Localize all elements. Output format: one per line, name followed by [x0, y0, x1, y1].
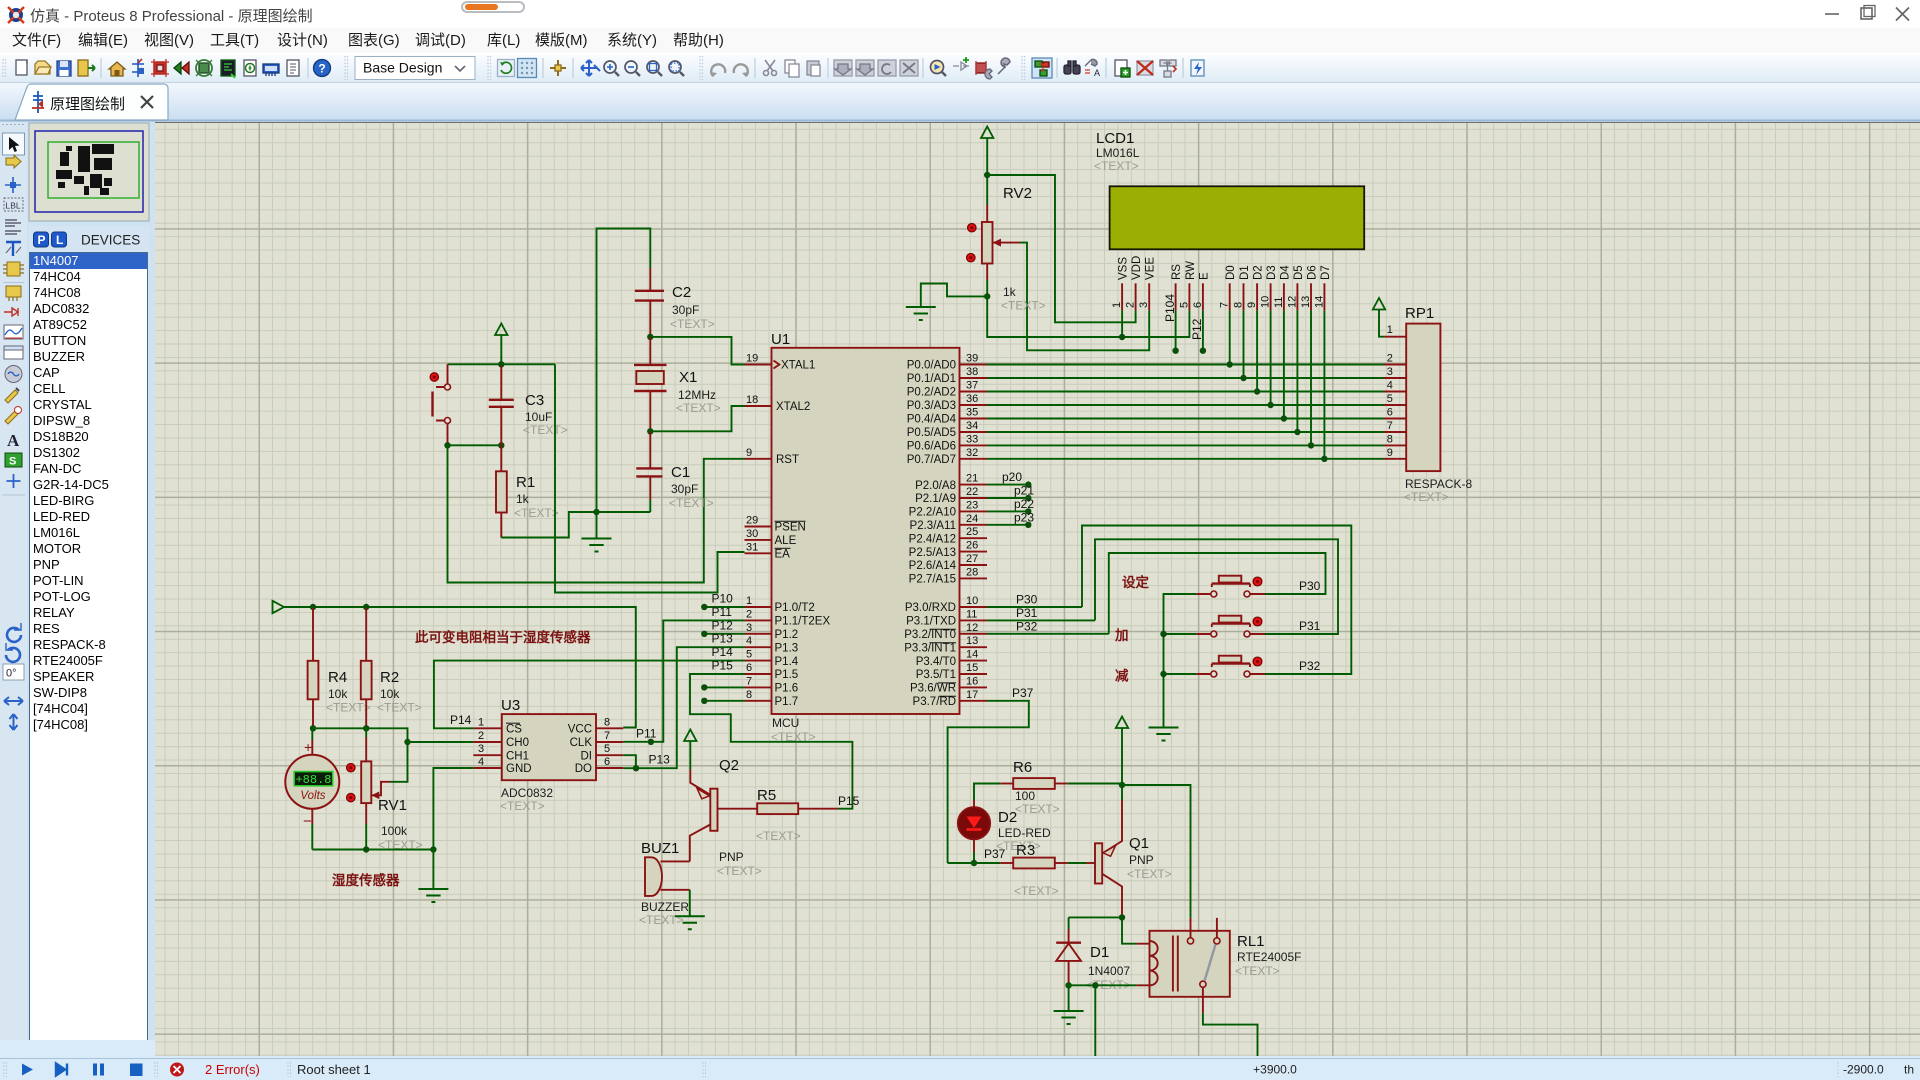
- 2D symbol S: [5, 453, 22, 467]
- svg-text:29: 29: [746, 515, 758, 527]
- svg-text:0°: 0°: [6, 668, 17, 680]
- wire XTAL2: [650, 406, 744, 431]
- node: C3/R1 junction: [498, 442, 504, 448]
- svg-text:10k: 10k: [380, 687, 400, 701]
- svg-text:XTAL1: XTAL1: [781, 360, 815, 372]
- svg-text:RST: RST: [776, 454, 799, 466]
- wire relay NO contact out: [1203, 1013, 1258, 1056]
- svg-text:P30: P30: [1299, 579, 1321, 593]
- svg-text:DI: DI: [581, 750, 593, 762]
- svg-text:P13: P13: [649, 753, 671, 767]
- svg-text:RL1: RL1: [1237, 933, 1265, 950]
- node: +5V junction: [1119, 782, 1125, 788]
- svg-text:p22: p22: [1014, 497, 1034, 511]
- capacitor C3: [489, 366, 568, 445]
- svg-text:12: 12: [1286, 296, 1298, 308]
- svg-text:<TEXT>: <TEXT>: [1404, 490, 1449, 504]
- resistor R5: [756, 787, 838, 843]
- wire divider to CH0: [313, 728, 408, 782]
- svg-text:P1.0/T2: P1.0/T2: [775, 602, 815, 614]
- graph mode: [4, 325, 23, 339]
- svg-text:C1: C1: [671, 464, 690, 481]
- svg-text:10: 10: [966, 595, 978, 607]
- node: collector junction: [1119, 914, 1125, 920]
- wire collector to D1/coil: [1069, 917, 1137, 943]
- svg-text:P1.1/T2EX: P1.1/T2EX: [775, 616, 831, 628]
- svg-text:4: 4: [746, 635, 752, 647]
- wire P3.0 P3.1 P3.2 to keys: [987, 606, 1082, 608]
- svg-text:<TEXT>: <TEXT>: [1235, 964, 1280, 978]
- svg-text:R3: R3: [1016, 842, 1035, 859]
- svg-text:1N4007: 1N4007: [1088, 964, 1130, 978]
- svg-text:P0.1/AD1: P0.1/AD1: [907, 373, 956, 385]
- svg-text:P2.1/A9: P2.1/A9: [915, 493, 956, 505]
- push button key at y=594: [1196, 576, 1265, 597]
- svg-text:P31: P31: [1299, 619, 1321, 633]
- bus mode: [6, 242, 21, 256]
- svg-text:+3900.0: +3900.0: [1253, 1063, 1297, 1077]
- svg-text:设定: 设定: [1122, 574, 1150, 590]
- svg-text:2 Error(s): 2 Error(s): [205, 1062, 260, 1077]
- resistor R4: [308, 608, 371, 728]
- svg-text:ADC0832: ADC0832: [501, 786, 553, 800]
- svg-text:9: 9: [1387, 447, 1393, 459]
- transistor Q1 PNP: [1086, 785, 1171, 917]
- svg-text:P1.5: P1.5: [775, 669, 799, 681]
- svg-text:D6: D6: [1307, 265, 1319, 280]
- svg-text:<TEXT>: <TEXT>: [1001, 299, 1046, 313]
- diode D1 1N4007: [1056, 917, 1130, 992]
- node: R4 bottom: [310, 725, 316, 731]
- wire P3.0 to key3: [1082, 526, 1351, 675]
- svg-text:X1: X1: [679, 369, 697, 386]
- rotate CW: [7, 628, 21, 642]
- wire reset top rail: [448, 363, 556, 365]
- svg-text:3: 3: [1138, 302, 1150, 308]
- svg-text:-2900.0: -2900.0: [1843, 1063, 1884, 1077]
- IC U3 ADC0832 body: [502, 714, 596, 780]
- svg-text:6: 6: [1192, 302, 1204, 308]
- svg-text:RS: RS: [1171, 264, 1183, 280]
- wire E stub: [1202, 310, 1204, 350]
- svg-text:CH0: CH0: [506, 737, 529, 749]
- svg-text:<TEXT>: <TEXT>: [1094, 159, 1139, 173]
- wire RV2 wiper to VEE: [1020, 243, 1149, 351]
- svg-text:D0: D0: [1225, 265, 1237, 280]
- svg-text:<TEXT>: <TEXT>: [500, 799, 545, 813]
- relay RL1: [1137, 918, 1302, 1013]
- svg-text:3: 3: [478, 743, 484, 755]
- ground (ADC): [418, 889, 448, 902]
- svg-text:10uF: 10uF: [525, 410, 552, 424]
- wire +5V to relay common: [1122, 785, 1191, 918]
- svg-text:<TEXT>: <TEXT>: [639, 913, 684, 927]
- svg-text:P1.2: P1.2: [775, 629, 799, 641]
- svg-text:p21: p21: [1014, 484, 1034, 498]
- resistor R6: [1000, 759, 1122, 816]
- svg-text:6: 6: [746, 662, 752, 674]
- svg-text:P3.4/T0: P3.4/T0: [916, 656, 956, 668]
- svg-text:<TEXT>: <TEXT>: [1014, 884, 1059, 898]
- svg-text:30pF: 30pF: [671, 482, 698, 496]
- svg-text:P2.6/A14: P2.6/A14: [909, 560, 957, 572]
- wire P1.7 stub: [704, 700, 744, 702]
- power terminal (reset net): [495, 324, 507, 336]
- svg-text:LED-RED: LED-RED: [998, 826, 1051, 840]
- wire P1.4 to ADC CS: [434, 661, 745, 729]
- wire VDD to LCD pin2: [987, 175, 1135, 322]
- svg-text:EA: EA: [775, 549, 791, 561]
- wire P2.0-P2.3 stubs: [987, 484, 1028, 486]
- svg-text:BUZ1: BUZ1: [641, 840, 679, 857]
- resistor R1: [496, 445, 559, 537]
- svg-text:7: 7: [1387, 420, 1393, 432]
- svg-text:<TEXT>: <TEXT>: [377, 701, 422, 715]
- svg-text:18: 18: [746, 394, 758, 406]
- generator mode: [5, 366, 22, 383]
- svg-text:GND: GND: [506, 763, 532, 775]
- svg-text:此可变电阻相当于湿度传感器: 此可变电阻相当于湿度传感器: [415, 629, 591, 645]
- push button key at y=634: [1196, 616, 1265, 637]
- svg-text:P0.7/AD7: P0.7/AD7: [907, 454, 956, 466]
- svg-text:U1: U1: [771, 331, 790, 348]
- svg-text:5: 5: [746, 649, 752, 661]
- svg-text:湿度传感器: 湿度传感器: [332, 872, 400, 888]
- svg-text:9: 9: [746, 447, 752, 459]
- svg-text:38: 38: [966, 366, 978, 378]
- node: ground junction: [593, 509, 599, 515]
- svg-text:5: 5: [1178, 302, 1190, 308]
- mirror vertical: [10, 714, 18, 730]
- svg-text:P3.3/INT1: P3.3/INT1: [904, 642, 956, 654]
- wire R1 bottom to ground net: [501, 512, 650, 538]
- svg-text:12MHz: 12MHz: [678, 388, 716, 402]
- wire P1.5 to R5: [690, 674, 852, 809]
- svg-text:P32: P32: [1299, 659, 1321, 673]
- svg-text:E: E: [1198, 272, 1210, 280]
- capacitor C2: [635, 268, 715, 337]
- svg-text:30pF: 30pF: [672, 303, 699, 317]
- wire P0 bus lines to RP1: [987, 364, 1384, 366]
- svg-text:R5: R5: [757, 787, 776, 804]
- svg-text:<TEXT>: <TEXT>: [669, 496, 714, 510]
- svg-text:2: 2: [746, 608, 752, 620]
- svg-text:<TEXT>: <TEXT>: [717, 864, 762, 878]
- svg-text:P30: P30: [1016, 593, 1038, 607]
- svg-text:1: 1: [746, 595, 752, 607]
- svg-text:9: 9: [1246, 302, 1258, 308]
- wire XTAL1: [650, 337, 744, 365]
- svg-text:37: 37: [966, 380, 978, 392]
- svg-text:1: 1: [1387, 324, 1393, 336]
- svg-text:P2.2/A10: P2.2/A10: [909, 507, 956, 519]
- svg-text:R6: R6: [1013, 759, 1032, 776]
- LED D2: [958, 800, 1051, 863]
- wire RV2 bottom / gnd net: [986, 280, 988, 296]
- svg-text:1k: 1k: [516, 492, 530, 506]
- svg-text:C3: C3: [525, 392, 544, 409]
- svg-text:PNP: PNP: [1129, 853, 1154, 867]
- op: MCU U1 AT89C52 body: [772, 348, 960, 714]
- svg-text:35: 35: [966, 407, 978, 419]
- svg-text:P1.4: P1.4: [775, 656, 799, 668]
- svg-text:−: −: [303, 813, 312, 830]
- svg-text:LBL: LBL: [6, 201, 21, 211]
- svg-text:P3.2/INT0: P3.2/INT0: [904, 629, 956, 641]
- svg-text:2: 2: [478, 730, 484, 742]
- svg-text:P0.3/AD3: P0.3/AD3: [907, 400, 956, 412]
- svg-text:<TEXT>: <TEXT>: [514, 506, 559, 520]
- svg-text:P31: P31: [1016, 606, 1038, 620]
- crystal X1: [634, 337, 721, 431]
- svg-text:P3.6/WR: P3.6/WR: [910, 683, 956, 695]
- svg-text:P1.3: P1.3: [775, 642, 799, 654]
- node: button bottom: [444, 442, 450, 448]
- svg-text:P37: P37: [1012, 686, 1034, 700]
- component mode icon: [6, 155, 21, 168]
- svg-text:P10: P10: [712, 592, 734, 606]
- svg-text:R2: R2: [380, 669, 399, 686]
- svg-text:RV1: RV1: [378, 797, 407, 814]
- tape recorder mode: [4, 346, 23, 359]
- svg-text:17: 17: [966, 689, 978, 701]
- svg-text:P13: P13: [712, 632, 734, 646]
- svg-text:P1.6: P1.6: [775, 683, 799, 695]
- svg-text:6: 6: [604, 756, 610, 768]
- svg-text:减: 减: [1115, 668, 1129, 684]
- svg-text:P37: P37: [984, 847, 1006, 861]
- svg-text:1: 1: [1111, 302, 1123, 308]
- pot RV2: [967, 185, 1032, 280]
- wire analog gnd rail: [312, 849, 433, 851]
- svg-text:5: 5: [604, 743, 610, 755]
- ground (relay): [1068, 985, 1070, 1011]
- svg-text:26: 26: [966, 540, 978, 552]
- svg-text:P: P: [38, 233, 46, 247]
- power terminal (RP1): [1373, 298, 1385, 310]
- svg-text:RESPACK-8: RESPACK-8: [1405, 477, 1472, 491]
- wire C2 top rail: [597, 229, 651, 513]
- svg-text:D4: D4: [1279, 265, 1291, 280]
- wire P3.2 to key1: [1109, 553, 1326, 634]
- svg-text:<TEXT>: <TEXT>: [523, 423, 568, 437]
- svg-text:PSEN: PSEN: [775, 522, 806, 534]
- node: tap junction: [1092, 982, 1098, 988]
- svg-text:A: A: [7, 431, 20, 450]
- svg-text:<TEXT>: <TEXT>: [1127, 867, 1172, 881]
- wire P1.0 stub / +5V rail: [273, 601, 285, 613]
- svg-text:4: 4: [478, 756, 484, 768]
- svg-text:RTE24005F: RTE24005F: [1237, 950, 1301, 964]
- wire P1.3 to ADC DO/DI: [623, 647, 744, 768]
- svg-text:XTAL2: XTAL2: [776, 401, 810, 413]
- U3 right pins: [596, 727, 623, 729]
- ground (clock section): [596, 512, 598, 539]
- svg-text:7: 7: [604, 730, 610, 742]
- svg-text:P2.4/A12: P2.4/A12: [909, 533, 956, 545]
- wire P1.2 stub: [704, 633, 744, 635]
- svg-text:DO: DO: [575, 763, 592, 775]
- svg-text:5: 5: [1387, 393, 1393, 405]
- wire gnd to VSS and RW: [987, 296, 1189, 337]
- svg-text:27: 27: [966, 553, 978, 565]
- svg-text:CLK: CLK: [570, 737, 593, 749]
- svg-text:P14: P14: [450, 713, 472, 727]
- wire tap to canvas edge: [1094, 985, 1096, 1056]
- svg-text:36: 36: [966, 393, 978, 405]
- svg-text:ALE: ALE: [775, 535, 797, 547]
- junction dot mode: [5, 177, 21, 193]
- wire P1.6 stub: [704, 686, 744, 688]
- svg-text:P2.7/A15: P2.7/A15: [909, 574, 956, 586]
- svg-text:14: 14: [1313, 296, 1325, 308]
- svg-text:12: 12: [966, 622, 978, 634]
- power terminal (Q2 emitter): [684, 730, 696, 742]
- wire P3.1 to key2: [1095, 539, 1338, 634]
- ground (buzzer): [675, 916, 705, 929]
- svg-text:CH1: CH1: [506, 750, 529, 762]
- svg-text:<TEXT>: <TEXT>: [756, 829, 801, 843]
- svg-text:<TEXT>: <TEXT>: [676, 401, 721, 415]
- svg-text:100k: 100k: [381, 824, 408, 838]
- push button (reset): [430, 364, 450, 445]
- svg-text:1k: 1k: [1003, 285, 1017, 299]
- svg-text:+: +: [304, 739, 312, 755]
- wire reset net to RST: [448, 445, 745, 582]
- svg-text:P12: P12: [1190, 318, 1204, 340]
- svg-text:8: 8: [1387, 433, 1393, 445]
- power terminal (VDD): [981, 127, 993, 139]
- svg-text:P3.5/T1: P3.5/T1: [916, 669, 956, 681]
- svg-text:D3: D3: [1266, 265, 1278, 280]
- svg-text:14: 14: [966, 649, 978, 661]
- svg-text:<TEXT>: <TEXT>: [670, 317, 715, 331]
- svg-text:VCC: VCC: [568, 724, 592, 736]
- wire buzzer to ground: [689, 890, 691, 917]
- svg-text:P2.0/A8: P2.0/A8: [915, 480, 956, 492]
- svg-text:<TEXT>: <TEXT>: [326, 701, 371, 715]
- svg-text:10: 10: [1260, 296, 1272, 308]
- svg-text:P14: P14: [712, 645, 734, 659]
- svg-text:8: 8: [1233, 302, 1245, 308]
- svg-text:P12: P12: [712, 618, 734, 632]
- svg-text:R4: R4: [328, 669, 347, 686]
- node: D1 anode junction: [1065, 982, 1071, 988]
- svg-text:39: 39: [966, 353, 978, 365]
- preview window: [29, 123, 149, 221]
- devices header: [29, 226, 149, 252]
- svg-text:D5: D5: [1293, 265, 1305, 280]
- ground (keypad): [1149, 728, 1179, 741]
- current probe mode: [5, 411, 18, 424]
- pot RV1: [347, 728, 423, 852]
- resistor R3: [948, 842, 1087, 898]
- wire D1 to coil bottom: [1069, 984, 1137, 986]
- svg-text:p20: p20: [1002, 470, 1022, 484]
- svg-text:VSS: VSS: [1118, 257, 1130, 280]
- ground (LCD): [921, 284, 987, 308]
- power terminal (relay +5V): [1116, 717, 1128, 729]
- push button key at y=674: [1196, 656, 1265, 677]
- svg-text:P2.5/A13: P2.5/A13: [909, 547, 956, 559]
- svg-text:3: 3: [746, 622, 752, 634]
- resistor R2: [361, 608, 422, 728]
- capacitor C1: [636, 431, 713, 512]
- node: LED/R3 junction: [971, 860, 977, 866]
- wire P3.7 to driver: [948, 701, 1029, 863]
- voltmeter: [285, 728, 339, 849]
- svg-text:RW: RW: [1185, 261, 1197, 280]
- svg-text:11: 11: [1273, 297, 1285, 308]
- svg-text:Root sheet 1: Root sheet 1: [297, 1062, 371, 1077]
- svg-text:31: 31: [746, 541, 758, 553]
- node: VDD junction: [984, 172, 990, 178]
- svg-text:LM016L: LM016L: [1096, 146, 1140, 160]
- wire P1.1 to ADC CLK: [623, 620, 744, 741]
- resistor pack RP1: [1406, 324, 1440, 472]
- svg-text:原理图绘制: 原理图绘制: [50, 96, 125, 113]
- svg-text:th: th: [1904, 1063, 1914, 1077]
- wire U3 GND pin down: [433, 768, 473, 889]
- svg-text:C2: C2: [672, 284, 691, 301]
- angle box 0: [3, 664, 24, 680]
- svg-text:P2.3/A11: P2.3/A11: [910, 520, 956, 532]
- svg-text:RP1: RP1: [1405, 305, 1434, 322]
- svg-text:P32: P32: [1016, 619, 1038, 633]
- svg-text:LCD1: LCD1: [1096, 130, 1134, 147]
- node: R2 bottom: [363, 725, 369, 731]
- svg-text:P0.6/AD6: P0.6/AD6: [907, 441, 956, 453]
- svg-text:Q1: Q1: [1129, 835, 1149, 852]
- svg-text:CS: CS: [506, 724, 522, 736]
- svg-text:P15: P15: [838, 794, 860, 808]
- wire power to EA: [555, 364, 745, 592]
- terminal/instrument icon: [6, 286, 21, 297]
- svg-text:VEE: VEE: [1145, 257, 1157, 280]
- U3 left pins: [473, 727, 502, 729]
- svg-text:D2: D2: [1253, 265, 1265, 280]
- svg-text:25: 25: [966, 526, 978, 538]
- svg-text:P11: P11: [712, 605, 733, 619]
- svg-text:P11: P11: [636, 727, 657, 741]
- svg-text:3: 3: [1387, 366, 1393, 378]
- svg-text:4: 4: [1387, 380, 1393, 392]
- svg-text:34: 34: [966, 420, 978, 432]
- svg-text:16: 16: [966, 675, 978, 687]
- svg-text:Base Design: Base Design: [363, 60, 442, 76]
- text script mode: [5, 220, 21, 234]
- mirror horizontal: [4, 697, 23, 705]
- wire keypad common: [1164, 594, 1197, 728]
- svg-text:100: 100: [1015, 789, 1035, 803]
- wire RS stub: [1175, 310, 1177, 350]
- svg-text:P0.4/AD4: P0.4/AD4: [907, 414, 957, 426]
- svg-text:P1.7: P1.7: [775, 696, 799, 708]
- svg-text:Q2: Q2: [719, 757, 739, 774]
- svg-text:1: 1: [478, 716, 484, 728]
- svg-text:RV2: RV2: [1003, 185, 1032, 202]
- svg-text:15: 15: [966, 662, 978, 674]
- svg-text:19: 19: [746, 353, 758, 365]
- 2D marker: [7, 474, 21, 488]
- node: XTAL2 junction: [647, 428, 653, 434]
- selection arrow tool (selected): [3, 133, 25, 155]
- svg-text:13: 13: [966, 635, 978, 647]
- subcircuit mode: [7, 262, 20, 276]
- svg-text:L: L: [56, 233, 63, 247]
- svg-text:7: 7: [1219, 302, 1231, 308]
- svg-text:22: 22: [966, 486, 978, 498]
